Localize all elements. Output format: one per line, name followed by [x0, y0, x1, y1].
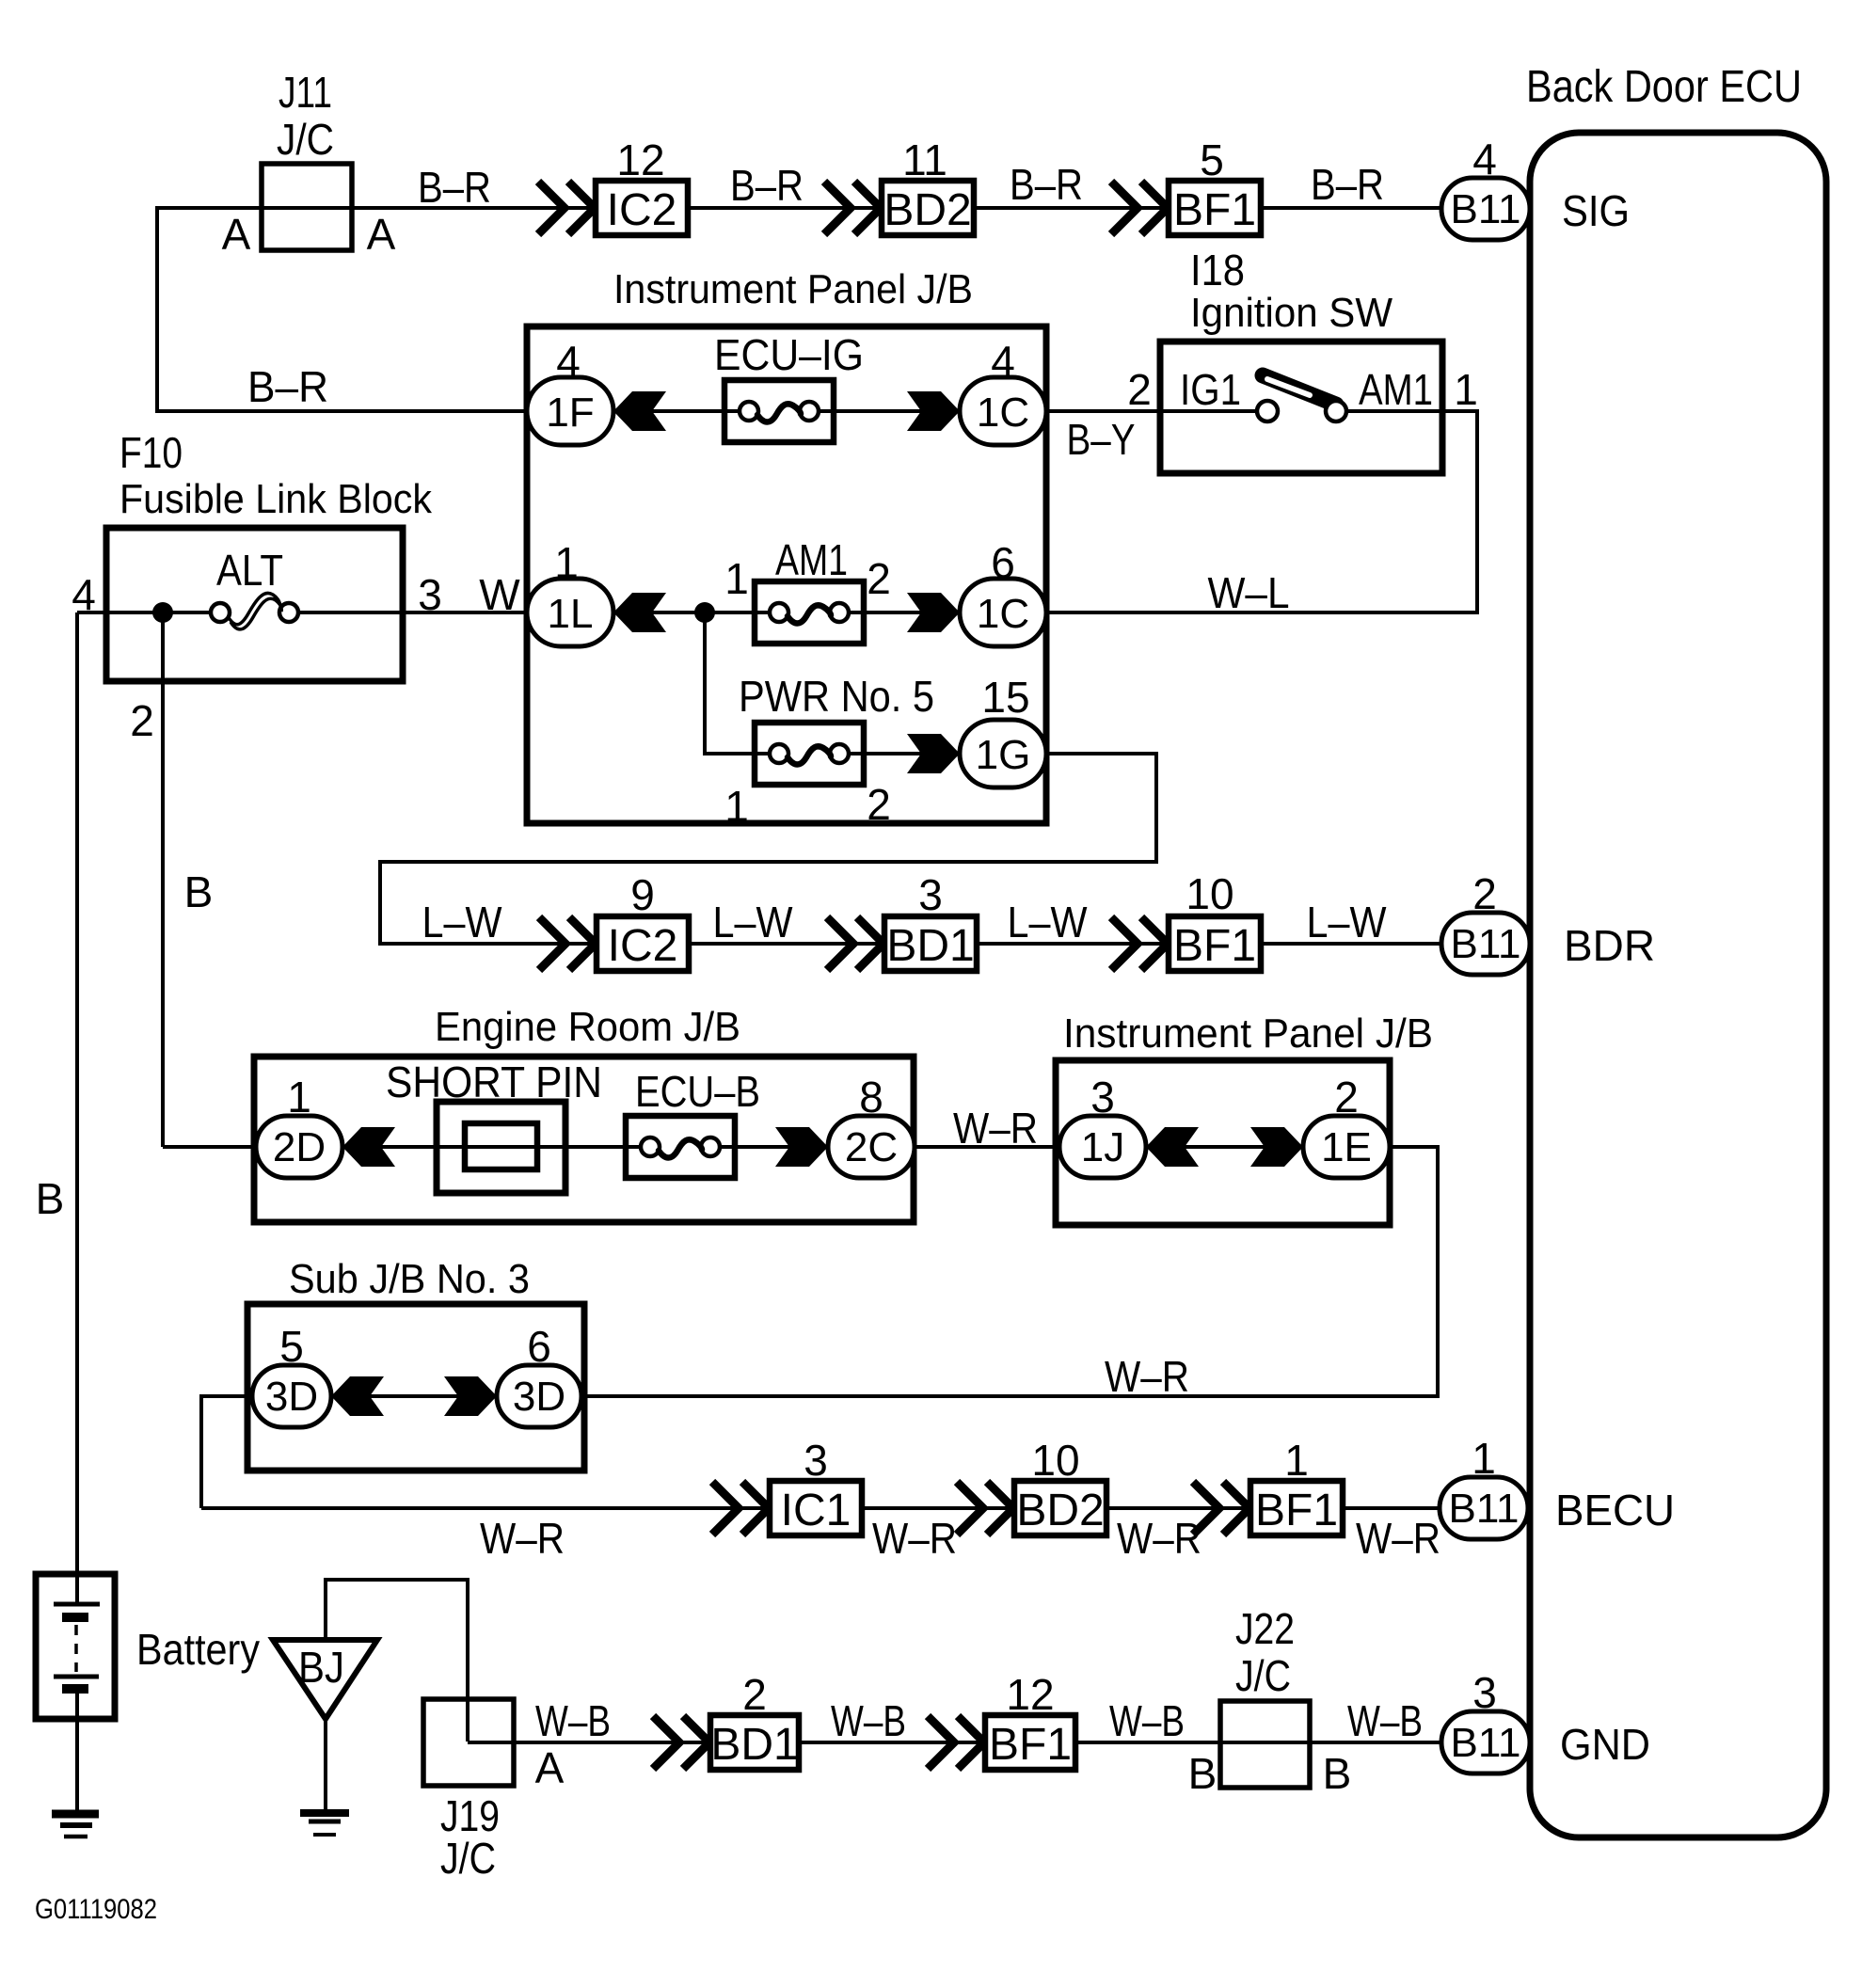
- arrow (left) at 1F: [613, 391, 666, 431]
- battery box: [36, 1574, 115, 1719]
- svg-text:SIG: SIG: [1562, 186, 1630, 235]
- connector 1J pin 3: [1059, 1116, 1146, 1178]
- svg-text:B: B: [1188, 1749, 1217, 1798]
- svg-text:BF1: BF1: [1173, 921, 1256, 971]
- svg-text:B11: B11: [1450, 1720, 1520, 1766]
- connector arrows >> before BF1 (SIG row): [1111, 182, 1168, 234]
- svg-text:B–R: B–R: [247, 362, 328, 411]
- svg-text:W–R: W–R: [1356, 1514, 1440, 1563]
- svg-text:BD2: BD2: [883, 185, 971, 235]
- svg-text:2D: 2D: [273, 1124, 326, 1170]
- svg-text:BD1: BD1: [886, 921, 974, 971]
- fuse AM1: [755, 581, 864, 644]
- svg-text:3: 3: [418, 570, 442, 619]
- wire W-R: 3D down to BECU row: [201, 1396, 252, 1508]
- svg-text:B–R: B–R: [730, 161, 804, 210]
- svg-text:1C: 1C: [977, 591, 1029, 637]
- svg-text:W–B: W–B: [1347, 1696, 1423, 1745]
- connector 1C pin 6: [960, 579, 1046, 646]
- svg-text:1: 1: [724, 554, 749, 603]
- junction connector J11: [262, 164, 352, 250]
- connector arrows >> before BF1 (BDR row): [1111, 917, 1168, 970]
- connector BD2 pin 11: [882, 181, 974, 235]
- arrow (left) at 2D: [342, 1127, 395, 1167]
- svg-text:W–R: W–R: [1105, 1352, 1189, 1401]
- connector B11 pin 4 (SIG): [1441, 178, 1530, 240]
- svg-text:J/C: J/C: [440, 1834, 496, 1883]
- svg-text:I18: I18: [1190, 246, 1245, 294]
- svg-text:1: 1: [1284, 1436, 1309, 1485]
- svg-text:3: 3: [804, 1436, 828, 1485]
- wire row 1L to 1C (AM1 row): [297, 611, 1046, 614]
- ground junction BJ triangle: [273, 1640, 377, 1719]
- svg-text:Instrument Panel J/B: Instrument Panel J/B: [613, 266, 973, 312]
- svg-text:Ignition SW: Ignition SW: [1190, 290, 1393, 336]
- svg-text:BDR: BDR: [1564, 921, 1655, 970]
- wire B: junction down to Engine Room J/B 2D: [161, 612, 165, 1147]
- svg-text:Sub J/B No. 3: Sub J/B No. 3: [289, 1256, 530, 1302]
- svg-text:BD1: BD1: [710, 1720, 798, 1770]
- short pin: [437, 1102, 565, 1193]
- svg-text:1F: 1F: [546, 390, 594, 436]
- connector IC2 pin 12: [596, 181, 688, 235]
- wire PWR No.5 branch from junction: [705, 612, 960, 754]
- svg-text:1: 1: [724, 782, 749, 831]
- connector BF1 pin 10: [1169, 916, 1261, 971]
- wire L-W: 1G to ECU pin BDR: [380, 754, 1441, 944]
- svg-text:BECU: BECU: [1555, 1486, 1675, 1535]
- svg-text:F10: F10: [119, 428, 183, 477]
- svg-text:4: 4: [1472, 135, 1497, 183]
- svg-text:B: B: [184, 867, 214, 916]
- svg-text:1C: 1C: [977, 390, 1029, 436]
- connector 1G pin 15: [960, 720, 1046, 787]
- svg-text:W–R: W–R: [1117, 1514, 1202, 1563]
- ground (BJ): [300, 1813, 349, 1835]
- switch contact AM1: [1326, 401, 1346, 421]
- svg-text:W: W: [479, 570, 520, 619]
- svg-text:B: B: [36, 1174, 65, 1223]
- wire BJ to J19: [326, 1580, 468, 1741]
- wire B: down-left to battery: [75, 612, 79, 1604]
- connector 2C pin 8: [828, 1116, 915, 1178]
- arrow (left) at 3D: [331, 1376, 384, 1416]
- connector 1L pin 1: [527, 579, 613, 646]
- svg-text:L–W: L–W: [1307, 898, 1388, 946]
- wire: 3D to 3D inside Sub J/B: [331, 1394, 497, 1398]
- svg-text:2C: 2C: [845, 1124, 898, 1170]
- arrow (right) into 1C pin 6: [907, 593, 960, 632]
- svg-text:1J: 1J: [1081, 1124, 1124, 1170]
- connector BD2 pin 10: [1014, 1481, 1106, 1535]
- svg-text:Fusible Link Block: Fusible Link Block: [119, 476, 433, 522]
- fuse PWR No.5: [755, 723, 864, 785]
- svg-text:BJ: BJ: [298, 1643, 344, 1692]
- svg-text:6: 6: [527, 1322, 551, 1371]
- arrow (left) at 1L: [613, 593, 666, 632]
- svg-text:3: 3: [1472, 1668, 1497, 1717]
- switch lever: [1263, 375, 1336, 405]
- wire B-R: J11 through IC2/BD2/BF1 to ECU pin SIG, plus drop to 1F: [157, 208, 1441, 411]
- svg-text:B–R: B–R: [1311, 160, 1384, 209]
- svg-text:IC2: IC2: [608, 921, 678, 971]
- svg-text:2: 2: [130, 696, 154, 745]
- svg-text:PWR No. 5: PWR No. 5: [739, 672, 934, 721]
- svg-text:AM1: AM1: [1359, 365, 1433, 414]
- svg-text:B11: B11: [1450, 186, 1520, 232]
- connector BF1 pin 5: [1169, 181, 1261, 235]
- svg-text:W–B: W–B: [535, 1696, 611, 1745]
- svg-text:GND: GND: [1560, 1720, 1650, 1769]
- svg-text:B–Y: B–Y: [1067, 415, 1136, 464]
- svg-text:2: 2: [742, 1670, 767, 1719]
- svg-text:J22: J22: [1235, 1604, 1295, 1653]
- svg-text:5: 5: [1200, 135, 1224, 184]
- svg-text:1: 1: [1454, 365, 1478, 414]
- arrow (right) into 2C: [775, 1127, 828, 1167]
- junction connector J22: [1220, 1701, 1310, 1788]
- svg-text:15: 15: [981, 673, 1029, 722]
- svg-text:1: 1: [1472, 1434, 1496, 1483]
- svg-text:B–R: B–R: [418, 163, 491, 212]
- svg-text:1L: 1L: [548, 591, 594, 637]
- svg-text:BF1: BF1: [1173, 185, 1256, 235]
- svg-text:G01119082: G01119082: [35, 1894, 157, 1925]
- svg-text:ALT: ALT: [216, 546, 283, 595]
- svg-text:6: 6: [991, 538, 1015, 587]
- connector BF1 pin 1: [1250, 1481, 1343, 1535]
- svg-text:A: A: [535, 1743, 565, 1792]
- svg-text:10: 10: [1031, 1436, 1079, 1485]
- wire row 1F to 1C (ECU-IG row): [613, 409, 960, 413]
- wire: engine room row 2D to 1E: [163, 1145, 1303, 1149]
- connector 1E pin 2: [1303, 1116, 1390, 1178]
- connector IC1 pin 3: [770, 1481, 862, 1535]
- svg-text:Battery: Battery: [136, 1625, 260, 1674]
- wire battery to ground: [75, 1693, 79, 1814]
- wire W-B: J19 to ECU pin GND: [468, 1741, 1441, 1744]
- Instrument Panel J/B box (second): [1056, 1060, 1390, 1225]
- svg-text:12: 12: [1006, 1670, 1054, 1719]
- connector arrows >> before IC2 (BDR row): [539, 917, 596, 970]
- svg-text:L–W: L–W: [713, 898, 794, 946]
- Back Door ECU box: [1530, 133, 1826, 1837]
- svg-text:3D: 3D: [265, 1374, 318, 1420]
- svg-text:2: 2: [1472, 869, 1497, 918]
- connector arrows >> before IC2 (SIG row): [538, 182, 595, 234]
- wire W-L: ignition AM1 down to 1C(6): [1046, 411, 1477, 612]
- connector 3D pin 5: [252, 1365, 331, 1427]
- svg-text:W–R: W–R: [480, 1514, 565, 1563]
- svg-text:B11: B11: [1450, 921, 1520, 967]
- wire W: battery feed through ALT fuse to 1L: [77, 611, 527, 614]
- svg-text:Back Door ECU: Back Door ECU: [1526, 62, 1802, 112]
- svg-text:J/C: J/C: [277, 115, 334, 164]
- svg-text:1G: 1G: [976, 732, 1031, 778]
- svg-text:9: 9: [630, 870, 655, 919]
- svg-text:J11: J11: [279, 68, 332, 117]
- svg-text:W–B: W–B: [831, 1696, 906, 1745]
- fuse ECU-B: [626, 1116, 735, 1178]
- svg-text:BD2: BD2: [1016, 1486, 1104, 1535]
- svg-text:ECU–IG: ECU–IG: [714, 330, 864, 379]
- battery plates: [54, 1604, 100, 1689]
- arrow (right) into 1C: [907, 391, 960, 431]
- ground (battery): [52, 1814, 99, 1837]
- svg-text:ECU–B: ECU–B: [635, 1067, 760, 1116]
- svg-text:BF1: BF1: [989, 1720, 1072, 1770]
- connector arrows >> before IC1 (BECU row): [712, 1482, 769, 1535]
- svg-text:IC1: IC1: [781, 1486, 851, 1535]
- svg-text:B–R: B–R: [1010, 160, 1083, 209]
- svg-text:A: A: [222, 210, 251, 259]
- svg-text:L–W: L–W: [1008, 898, 1089, 946]
- svg-text:2: 2: [1334, 1073, 1359, 1121]
- wire W-R: Sub J/B to ECU pin BECU: [201, 1506, 1440, 1510]
- junction node (ALT branch): [152, 602, 173, 623]
- svg-text:W–L: W–L: [1208, 568, 1290, 617]
- wire W-R: 1E down to Sub J/B 3D: [581, 1147, 1438, 1396]
- connector arrows >> before BD2 (SIG row): [824, 182, 881, 234]
- connector B11 pin 2 (BDR): [1441, 913, 1530, 975]
- svg-text:2: 2: [867, 554, 891, 603]
- connector arrows >> before BD1 (GND row): [653, 1716, 709, 1769]
- svg-text:4: 4: [72, 570, 96, 619]
- ignition switch I18 box: [1160, 342, 1442, 473]
- svg-text:12: 12: [616, 135, 664, 184]
- connector 2D pin 1: [256, 1116, 342, 1178]
- svg-text:1: 1: [287, 1073, 311, 1121]
- arrow (right) into 1E: [1250, 1127, 1303, 1167]
- connector BF1 pin 12: [985, 1715, 1075, 1770]
- svg-text:W–R: W–R: [872, 1514, 957, 1563]
- fuse ECU-IG: [724, 380, 834, 442]
- svg-text:SHORT PIN: SHORT PIN: [386, 1058, 602, 1106]
- Engine Room J/B box: [254, 1057, 914, 1222]
- svg-text:W–R: W–R: [953, 1104, 1038, 1153]
- wire B-Y: 1C(4) to ignition switch IG1: [1046, 409, 1257, 413]
- svg-text:11: 11: [902, 135, 947, 184]
- connector arrows >> before BD2 (BECU row): [957, 1482, 1013, 1535]
- fusible link ALT element: [211, 593, 298, 628]
- svg-text:3: 3: [918, 870, 943, 919]
- svg-text:1E: 1E: [1321, 1124, 1372, 1170]
- connector arrows >> before BD1 (BDR row): [827, 917, 883, 970]
- svg-text:J/C: J/C: [1235, 1651, 1291, 1700]
- connector arrows >> before BF1 (GND row): [928, 1716, 984, 1769]
- svg-text:IG1: IG1: [1180, 365, 1241, 414]
- connector 1C pin 4: [960, 377, 1046, 445]
- svg-text:10: 10: [1186, 869, 1233, 918]
- svg-text:5: 5: [279, 1322, 304, 1371]
- svg-text:2: 2: [867, 780, 891, 829]
- svg-text:A: A: [367, 210, 396, 259]
- junction connector J19: [423, 1699, 514, 1786]
- connector B11 pin 3 (GND): [1441, 1711, 1530, 1773]
- svg-text:4: 4: [991, 337, 1015, 386]
- svg-text:AM1: AM1: [775, 535, 848, 584]
- connector arrows >> before BF1 (BECU row): [1193, 1482, 1249, 1535]
- svg-text:Instrument Panel J/B: Instrument Panel J/B: [1063, 1010, 1433, 1057]
- arrow (right) into 3D: [444, 1376, 497, 1416]
- svg-text:Engine Room J/B: Engine Room J/B: [435, 1004, 740, 1050]
- svg-text:B: B: [1323, 1749, 1352, 1798]
- connector 3D pin 6: [497, 1365, 581, 1427]
- svg-text:BF1: BF1: [1255, 1486, 1338, 1535]
- arrow (right) into 1G: [907, 734, 960, 773]
- svg-text:8: 8: [859, 1073, 883, 1121]
- svg-text:B11: B11: [1448, 1486, 1519, 1532]
- svg-text:3: 3: [1090, 1073, 1115, 1121]
- switch contact IG1: [1257, 401, 1278, 421]
- Instrument Panel J/B box: [527, 326, 1046, 823]
- svg-text:3D: 3D: [513, 1374, 565, 1420]
- junction node (AM1/PWR branch): [694, 602, 715, 623]
- Sub J/B No.3 box: [247, 1304, 584, 1471]
- svg-text:4: 4: [556, 337, 581, 386]
- connector BD1 pin 3: [884, 916, 977, 971]
- svg-text:IC2: IC2: [607, 185, 677, 235]
- arrow (left) at 1J: [1146, 1127, 1199, 1167]
- svg-text:L–W: L–W: [422, 898, 503, 946]
- svg-text:2: 2: [1127, 365, 1152, 414]
- connector BD1 pin 2: [710, 1715, 799, 1770]
- fusible link block F10 box: [106, 528, 403, 681]
- wire BJ to ground: [324, 1719, 327, 1813]
- connector B11 pin 1 (BECU): [1440, 1477, 1528, 1539]
- svg-text:W–B: W–B: [1109, 1696, 1185, 1745]
- connector IC2 pin 9: [597, 916, 689, 971]
- connector 1F pin 4: [527, 377, 613, 445]
